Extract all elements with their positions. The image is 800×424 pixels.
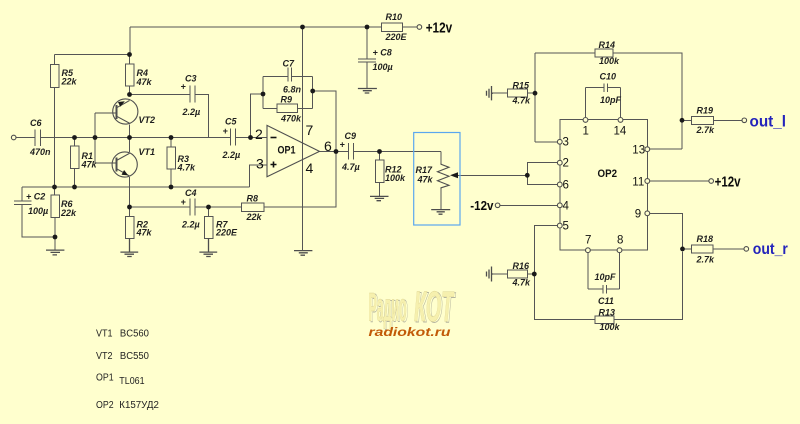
node R16 <box>532 272 537 277</box>
svg-text:OP1: OP1 <box>278 145 296 157</box>
pin circle 13 <box>645 147 650 152</box>
node pin2 <box>248 135 253 140</box>
wire R17 bottom lead <box>440 189 442 210</box>
pin minus OP1 <box>271 137 277 139</box>
svg-text:2.2µ: 2.2µ <box>182 107 201 117</box>
svg-text:10pF: 10pF <box>595 272 617 282</box>
resistor R2 <box>125 217 134 239</box>
svg-text:OP2: OP2 <box>96 400 114 411</box>
wire R17 top lead <box>440 152 442 164</box>
ground under R6 <box>46 250 64 255</box>
node emitters <box>127 135 132 140</box>
svg-text:47k: 47k <box>417 175 434 185</box>
resistor R5 <box>50 65 59 88</box>
node emitter-R2 <box>127 205 132 210</box>
wire pin1 pin14 risers C10 loop <box>586 84 621 118</box>
pin circle 5 <box>557 223 562 228</box>
node OP1 out <box>334 149 339 154</box>
svg-text:47k: 47k <box>136 77 153 87</box>
node R19 <box>680 118 685 123</box>
resistor R16 <box>508 270 528 278</box>
wire bias rail y187 <box>22 165 267 201</box>
wire C7 loop to output <box>313 91 336 152</box>
ground sideways R15 <box>487 86 494 100</box>
wire R2 lead <box>129 207 131 217</box>
potentiometer R17 <box>438 163 450 189</box>
wire C2 leads <box>22 205 55 251</box>
svg-text:К157УД2: К157УД2 <box>119 400 159 411</box>
svg-text:VT1: VT1 <box>139 147 156 157</box>
svg-text:+12v: +12v <box>426 20 453 37</box>
svg-text:100µ: 100µ <box>373 62 393 72</box>
transistor VT2 <box>113 99 138 124</box>
wire R3 leads <box>170 138 172 188</box>
watermark Radio KOT <box>369 283 457 339</box>
wire main input line <box>16 137 231 139</box>
svg-text:4: 4 <box>563 200 570 212</box>
terminal out_r <box>744 247 749 252</box>
svg-text:3: 3 <box>563 137 569 149</box>
svg-text:VT2: VT2 <box>96 351 113 362</box>
wire pin4 to -12v <box>500 204 557 206</box>
wire pin9 to R18 <box>649 213 744 249</box>
terminal +12v right <box>709 179 714 184</box>
svg-text:-12v: -12v <box>470 199 493 213</box>
svg-text:BC560: BC560 <box>120 329 149 340</box>
svg-text:6: 6 <box>563 180 569 192</box>
svg-text:13: 13 <box>632 145 645 157</box>
svg-text:+12v: +12v <box>715 174 741 191</box>
svg-text:R18: R18 <box>697 234 714 244</box>
svg-text:4.7k: 4.7k <box>512 96 532 106</box>
ground under R2 <box>120 238 138 256</box>
svg-text:14: 14 <box>614 126 627 138</box>
ARROWHEAD VT1 emitter down <box>122 170 129 175</box>
wire pin2 pin6 loop <box>527 163 557 185</box>
wire R7 lead <box>208 207 210 217</box>
svg-text:VT1: VT1 <box>96 329 113 340</box>
svg-text:+: + <box>181 82 187 92</box>
svg-text:220E: 220E <box>385 32 408 42</box>
op-amp OP1 <box>267 125 320 176</box>
svg-text:OP2: OP2 <box>598 168 618 180</box>
svg-text:7: 7 <box>585 235 591 247</box>
svg-text:22k: 22k <box>60 208 77 218</box>
node C2-R6 <box>53 235 58 240</box>
svg-text:+: + <box>181 197 187 207</box>
capacitor C3 <box>190 86 195 103</box>
svg-text:R15: R15 <box>513 81 531 91</box>
capacitor C7 <box>288 67 292 81</box>
ground under R12 <box>370 196 389 200</box>
resistor R4 <box>125 64 134 86</box>
ground under C8 <box>358 89 377 94</box>
svg-text:VT2: VT2 <box>139 115 156 125</box>
capacitor C6 <box>35 130 41 147</box>
svg-text:C10: C10 <box>600 72 617 82</box>
svg-text:R17: R17 <box>416 165 434 175</box>
svg-text:100µ: 100µ <box>28 206 48 216</box>
svg-text:47k: 47k <box>136 228 153 238</box>
svg-text:out_r: out_r <box>753 241 788 258</box>
svg-text:9: 9 <box>635 209 641 221</box>
terminal out_l <box>742 118 747 123</box>
wire C5 to pin2 <box>236 137 268 139</box>
node R12 top <box>377 149 382 154</box>
svg-text:5: 5 <box>563 221 569 233</box>
resistor R15 <box>508 89 528 97</box>
op-amp U2 box OP2 <box>560 120 648 251</box>
node C4-R7 <box>206 205 211 210</box>
wire R15 to riser <box>493 92 535 94</box>
node R3 top <box>169 135 174 140</box>
svg-text:OP1: OP1 <box>96 373 114 384</box>
node R1 top <box>72 135 77 140</box>
ARROW wiper <box>450 172 458 178</box>
node rail R1 <box>72 185 77 190</box>
svg-text:C6: C6 <box>30 118 42 128</box>
resistor R14 <box>595 49 613 57</box>
wire base column VT1 VT2 <box>94 113 96 163</box>
wire pin5 riser <box>534 226 682 320</box>
capacitor C4 <box>190 199 195 216</box>
svg-text:4: 4 <box>306 160 314 176</box>
svg-text:TL061: TL061 <box>119 376 145 387</box>
node R4-C3 <box>127 92 132 97</box>
ground sideways R16 <box>487 267 494 282</box>
svg-text:7: 7 <box>306 122 314 138</box>
node rail-C8 <box>365 25 370 30</box>
terminal input <box>11 135 16 140</box>
node R18 <box>680 247 685 252</box>
svg-text:47k: 47k <box>81 160 98 170</box>
pin circle 7 <box>586 248 591 253</box>
svg-text:R9: R9 <box>281 95 293 105</box>
svg-text:11: 11 <box>632 177 644 189</box>
svg-text:6.8n: 6.8n <box>283 85 302 95</box>
wire C3 branch <box>130 95 209 138</box>
svg-text:C7: C7 <box>283 59 295 69</box>
resistor R1 <box>70 146 79 169</box>
node C7 left <box>261 92 266 97</box>
resistor R9 <box>277 104 298 113</box>
node rail R5 <box>52 185 57 190</box>
wire R19 to out_l <box>682 119 742 121</box>
node rail R3 <box>169 185 174 190</box>
svg-text:R10: R10 <box>386 12 403 22</box>
svg-text:470k: 470k <box>280 114 302 124</box>
capacitor C2 electrolytic <box>14 201 32 205</box>
resistor R19 <box>691 116 713 124</box>
blue box around R17 <box>414 133 460 226</box>
capacitor C9 <box>349 143 354 160</box>
pin circle 14 <box>618 118 623 123</box>
svg-text:100k: 100k <box>385 173 406 183</box>
resistor R7 <box>204 217 213 239</box>
wire output to C9 <box>320 151 442 153</box>
svg-text:22k: 22k <box>61 77 78 87</box>
svg-text:2: 2 <box>255 126 263 142</box>
svg-text:КОТ: КОТ <box>414 283 455 331</box>
svg-text:C11: C11 <box>598 296 614 306</box>
svg-text:Радио: Радио <box>369 286 407 330</box>
svg-text:100k: 100k <box>599 56 620 66</box>
terminal +12v top <box>417 25 422 30</box>
pin circle 9 <box>645 211 650 216</box>
resistor R6 <box>51 195 60 218</box>
svg-text:2.2µ: 2.2µ <box>181 220 200 230</box>
svg-text:2.7k: 2.7k <box>696 255 716 265</box>
wire pin3 riser R14 <box>535 53 595 142</box>
wire pin2 riser to C7 loop <box>251 94 264 138</box>
svg-text:R14: R14 <box>599 40 616 50</box>
pin circle 3 <box>557 139 562 144</box>
svg-text:3: 3 <box>256 156 264 172</box>
transistor VT1 <box>112 152 137 177</box>
pin circle 11 <box>645 179 650 184</box>
svg-text:470n: 470n <box>29 147 51 157</box>
svg-text:22k: 22k <box>246 212 263 222</box>
svg-text:C5: C5 <box>225 117 237 127</box>
svg-text:R16: R16 <box>513 261 531 271</box>
resistor R13 <box>595 316 614 324</box>
wire R12 leads <box>379 152 381 197</box>
pin circle 2 <box>557 160 562 165</box>
svg-text:6: 6 <box>324 138 332 154</box>
node wiper <box>525 173 530 178</box>
ground under OP1 pin4 <box>294 251 312 256</box>
ground under R7 <box>199 238 217 256</box>
svg-text:radiokot.ru: radiokot.ru <box>369 325 452 339</box>
resistor R10 <box>382 23 403 32</box>
wire pin11 to +12v <box>649 180 709 182</box>
wire R14 right to R19 node <box>613 53 682 149</box>
svg-text:2.7k: 2.7k <box>696 125 716 135</box>
svg-text:10pF: 10pF <box>600 95 622 105</box>
wire R16 <box>493 273 534 275</box>
wire C7 R9 loop <box>263 77 313 109</box>
svg-text:2.2µ: 2.2µ <box>222 150 241 160</box>
svg-text:4.7k: 4.7k <box>177 163 197 173</box>
svg-text:100k: 100k <box>600 322 621 332</box>
node bases <box>93 135 98 140</box>
resistor R3 <box>167 147 176 169</box>
node C7 right <box>310 89 315 94</box>
terminal -12v <box>495 203 500 208</box>
svg-text:C4: C4 <box>185 188 197 198</box>
node rail-pin7 <box>300 25 305 30</box>
capacitor C8 electrolytic <box>358 59 376 62</box>
pin circle 1 <box>583 118 588 123</box>
svg-text:out_l: out_l <box>750 114 787 131</box>
svg-text:4.7µ: 4.7µ <box>341 162 360 172</box>
resistor R12 <box>375 160 384 183</box>
resistor R8 <box>242 203 265 212</box>
wire C8 lead <box>366 27 368 89</box>
svg-text:C9: C9 <box>345 131 357 141</box>
capacitor C5 <box>231 129 236 146</box>
wire R4 column <box>129 55 131 95</box>
resistor R18 <box>691 245 713 253</box>
svg-text:R19: R19 <box>697 106 714 116</box>
pin circle 6 <box>557 182 562 187</box>
svg-text:+: + <box>223 126 229 136</box>
ground under R17 <box>431 210 450 215</box>
svg-text:220E: 220E <box>215 228 238 238</box>
svg-text:+ C8: + C8 <box>373 48 392 58</box>
wire R5R6 column <box>54 55 56 196</box>
pin plus OP1 <box>271 162 277 168</box>
svg-text:+ C2: + C2 <box>26 192 45 202</box>
svg-text:R8: R8 <box>247 194 259 204</box>
wire pin7 pin4 riser <box>302 27 304 251</box>
ARROWHEAD VT2 emitter up <box>118 101 125 106</box>
svg-text:1: 1 <box>583 126 589 138</box>
svg-text:+: + <box>340 140 346 150</box>
node R15 <box>533 91 538 96</box>
wire R17 wiper to op2 <box>452 174 527 176</box>
svg-text:R13: R13 <box>599 307 616 317</box>
wire R1 leads <box>74 138 76 188</box>
svg-text:BC550: BC550 <box>120 351 149 362</box>
svg-text:4.7k: 4.7k <box>512 278 532 288</box>
svg-text:8: 8 <box>617 235 623 247</box>
svg-text:2: 2 <box>563 158 569 170</box>
wire top +12 rail <box>55 27 382 55</box>
svg-text:C3: C3 <box>185 74 197 84</box>
pin circle 4 <box>557 203 562 208</box>
GROUNDS <box>46 86 493 282</box>
wire R10 to terminal <box>403 26 418 28</box>
wire bottom emitter line <box>130 152 337 208</box>
pin circle 8 <box>617 248 622 253</box>
wire emitter column <box>129 125 131 208</box>
wire pin7 pin8 risers C11 loop <box>588 253 620 294</box>
node R4-R5 <box>127 52 132 57</box>
wire pin13 <box>681 120 683 149</box>
